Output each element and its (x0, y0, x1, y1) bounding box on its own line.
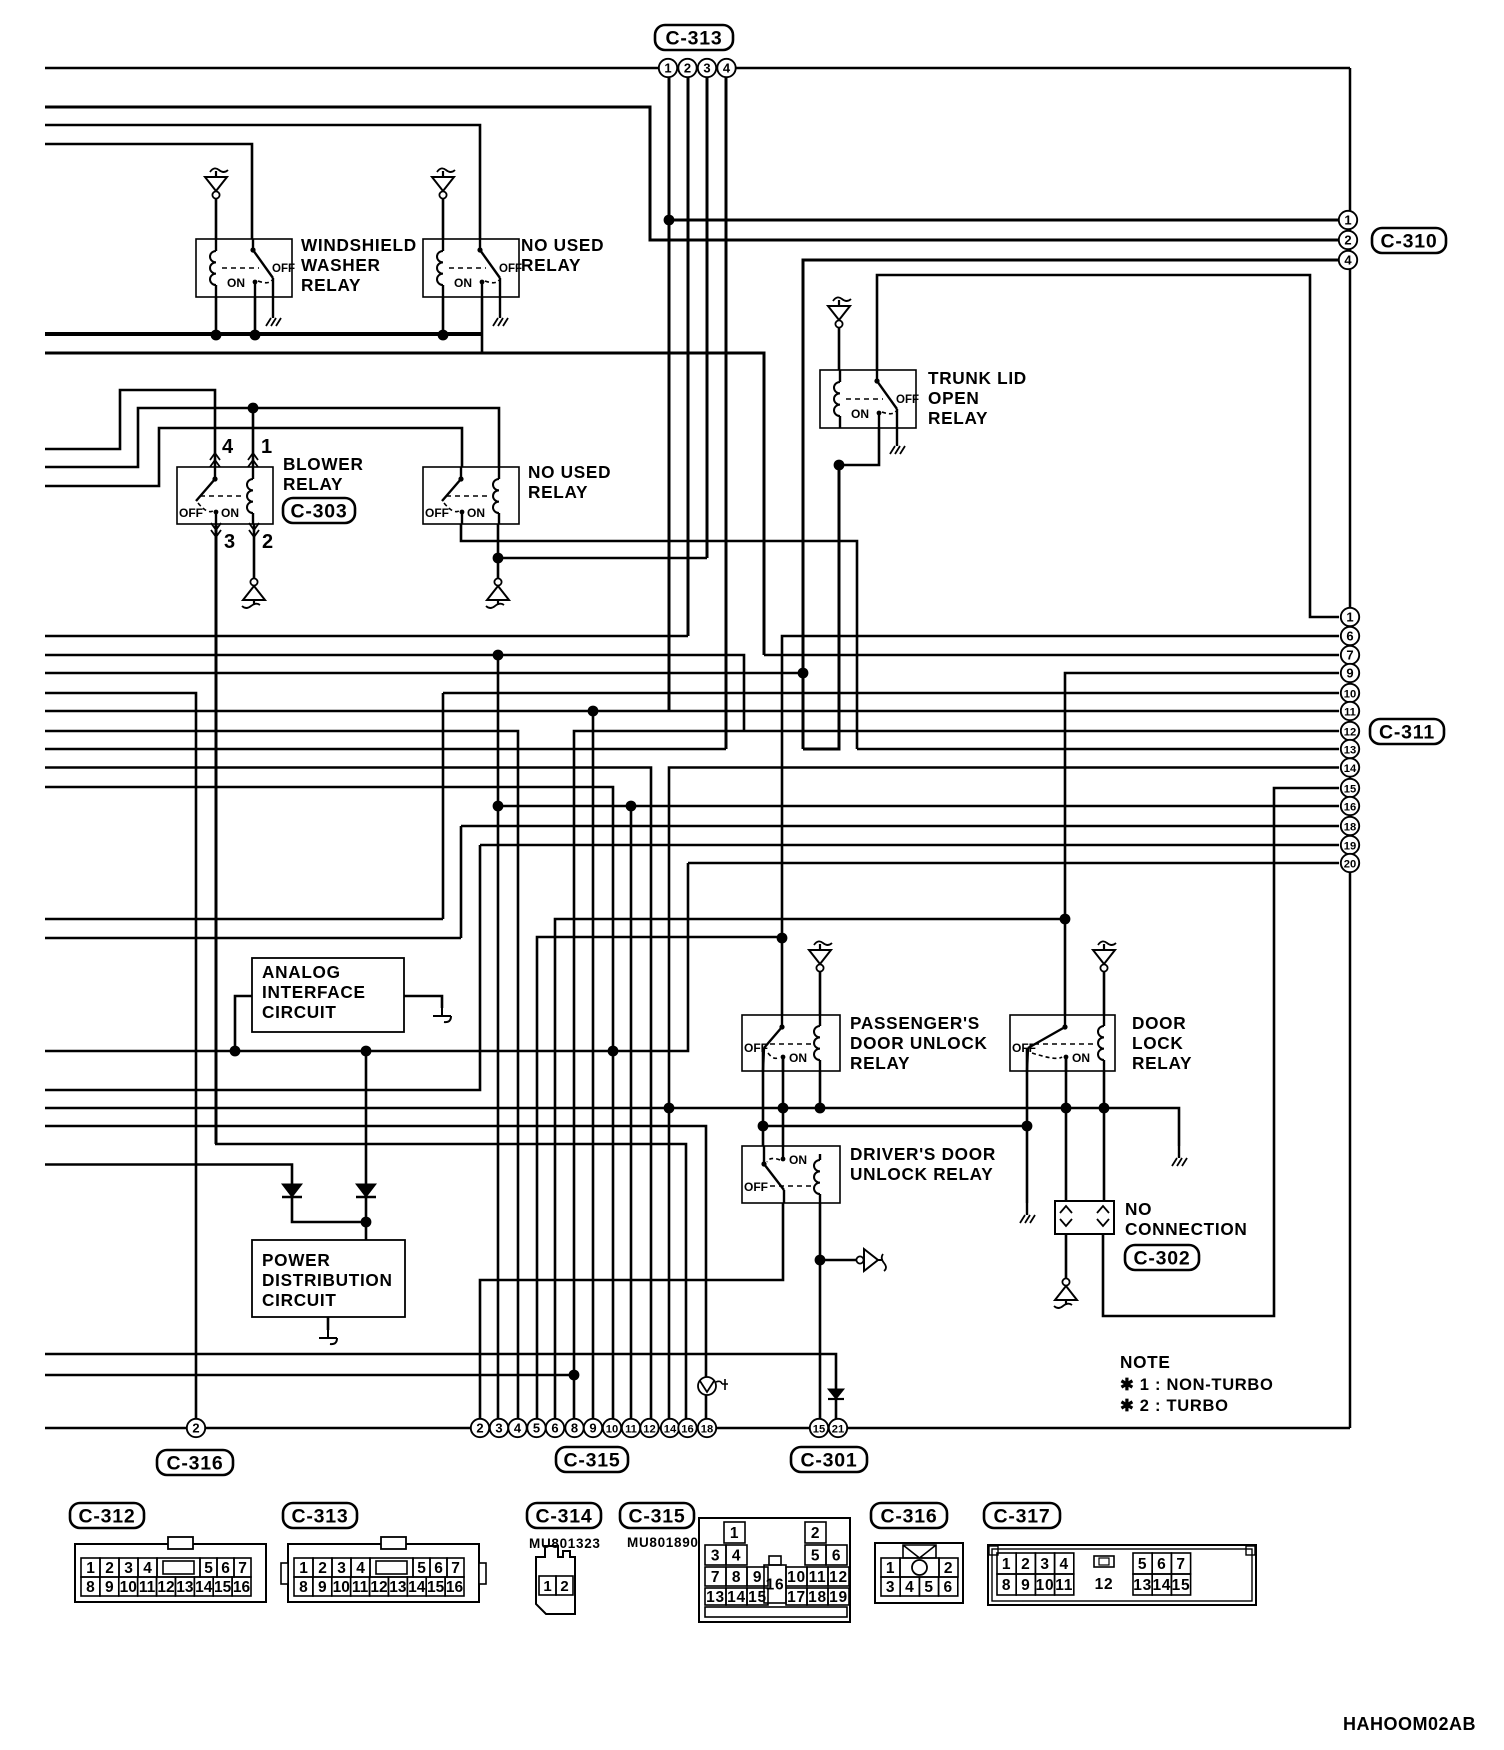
connector C-316 table label (871, 1503, 947, 1528)
svg-text:WASHER: WASHER (301, 255, 381, 275)
svg-text:DOOR: DOOR (1132, 1013, 1186, 1033)
svg-text:MU801890: MU801890 (627, 1535, 699, 1550)
wire pin18 riser (460, 826, 463, 938)
wire pin20 riser to 1051 row (45, 863, 688, 1051)
svg-text:10: 10 (606, 1423, 618, 1435)
node washer ON on bus E (250, 330, 261, 341)
svg-text:16: 16 (233, 1579, 251, 1596)
relay windshield washer (196, 239, 292, 297)
svg-text:10: 10 (787, 1569, 806, 1586)
svg-text:OFF: OFF (272, 263, 295, 275)
ground above trunk lid open relay (833, 297, 851, 301)
svg-text:11: 11 (352, 1579, 369, 1596)
svg-text:3: 3 (224, 531, 236, 553)
svg-text:2: 2 (1344, 232, 1351, 247)
svg-text:TRUNK LID: TRUNK LID (928, 368, 1027, 388)
wire passenger switch row from C-315 pin5 (537, 937, 782, 1428)
svg-text:21: 21 (832, 1423, 844, 1435)
node door lock OFF junction 1126 row (1022, 1121, 1033, 1132)
svg-text:C-315: C-315 (628, 1506, 685, 1528)
svg-text:13: 13 (706, 1589, 725, 1606)
svg-text:6: 6 (434, 1560, 443, 1577)
svg-text:OFF: OFF (896, 394, 919, 406)
wire C-311/C-313 connector column (1349, 68, 1352, 1428)
svg-text:12: 12 (157, 1579, 174, 1596)
svg-text:C-301: C-301 (800, 1450, 857, 1472)
pin C-315 3 (490, 1419, 508, 1437)
pin C-316 2 on bottom row (187, 1419, 205, 1437)
svg-text:C-316: C-316 (880, 1506, 937, 1528)
svg-text:14: 14 (1152, 1577, 1171, 1594)
box analog interface circuit (252, 958, 404, 1032)
wire ground to passenger coil (819, 971, 822, 1015)
ground horizontal right of driver coil (856, 1256, 863, 1263)
wire pin19 riser to 1090 row (45, 845, 480, 1090)
wire pin7-junction drop to C-315 pin3 (497, 655, 500, 1428)
svg-text:4: 4 (143, 1560, 152, 1577)
svg-text:OFF: OFF (425, 506, 449, 520)
svg-text:12: 12 (370, 1579, 387, 1596)
svg-text:10: 10 (333, 1579, 350, 1596)
svg-text:14: 14 (195, 1579, 213, 1596)
svg-text:18: 18 (701, 1423, 713, 1435)
svg-text:1: 1 (543, 1578, 551, 1595)
relay blower C-303 (177, 467, 273, 524)
wire diode1 to junction (292, 1197, 366, 1222)
pin C-310 1 (1339, 211, 1357, 229)
svg-text:6: 6 (551, 1420, 558, 1435)
node passenger ON junction 1108 row (778, 1103, 789, 1114)
svg-text:15: 15 (1344, 783, 1356, 795)
svg-text:OFF: OFF (499, 263, 522, 275)
wire passenger OFF drop to 1126 row (762, 1048, 765, 1126)
node driver coil junction to ground (815, 1255, 826, 1266)
node door lock coil junction 1108 row (1099, 1103, 1110, 1114)
svg-text:1: 1 (1344, 212, 1351, 227)
wire C-311 pin14 row to C-315 pin14 (669, 768, 1339, 1429)
ground above no used relay 1 (437, 168, 455, 172)
node pin16 junction to C-315 pin11 (626, 801, 637, 812)
pin C-311 6 (1341, 627, 1359, 645)
svg-text:5: 5 (533, 1420, 540, 1435)
svg-text:15: 15 (214, 1579, 232, 1596)
wire no-connection left pin to ground (1065, 1234, 1068, 1280)
svg-text:ANALOG: ANALOG (262, 962, 341, 982)
wire 938-left row to pin18 riser (45, 937, 461, 940)
wire door lock coil drop to no-connection (1103, 1071, 1106, 1201)
svg-text:RELAY: RELAY (521, 255, 581, 275)
label C-303 (283, 498, 355, 523)
svg-text:4: 4 (732, 1548, 741, 1565)
svg-text:14: 14 (664, 1423, 677, 1435)
wire no-used-1 ON contact down to bus F (481, 297, 484, 353)
svg-text:10: 10 (1344, 688, 1356, 700)
svg-text:13: 13 (176, 1579, 194, 1596)
svg-text:14: 14 (1344, 763, 1357, 775)
svg-text:10: 10 (120, 1579, 137, 1596)
pin C-311 20 (1341, 854, 1359, 872)
pin C-311 1 (1341, 608, 1359, 626)
relay passenger door unlock (742, 1015, 840, 1071)
wire pin16 junction drop to C-315 pin11 (630, 806, 633, 1428)
svg-text:11: 11 (1055, 1577, 1073, 1594)
svg-text:OFF: OFF (179, 506, 203, 520)
svg-text:2: 2 (1021, 1556, 1030, 1573)
svg-text:5: 5 (924, 1579, 933, 1596)
svg-text:2: 2 (105, 1560, 114, 1577)
svg-text:3: 3 (703, 60, 710, 75)
svg-text:C-313: C-313 (291, 1506, 348, 1528)
connector C-315 table label (620, 1503, 694, 1528)
svg-text:9: 9 (753, 1569, 762, 1586)
pin C-315 8 (565, 1419, 583, 1437)
svg-text:2: 2 (318, 1560, 327, 1577)
connector C-315 label bottom (556, 1447, 628, 1472)
wire pin7-left row (45, 655, 744, 731)
wire C-313 pin1 drop (668, 77, 671, 711)
pin C-311 15 (1341, 779, 1359, 797)
svg-text:14: 14 (408, 1579, 426, 1596)
pin C-310 2 (1339, 231, 1357, 249)
svg-text:8: 8 (299, 1579, 308, 1596)
svg-text:12: 12 (1095, 1576, 1114, 1593)
ground above windshield washer relay (210, 168, 228, 172)
wire 1108 row to chassis ground right (45, 1108, 1179, 1146)
svg-text:13: 13 (389, 1579, 407, 1596)
svg-text:4: 4 (1344, 252, 1352, 267)
wire C-311 pin18 row (461, 825, 1339, 828)
wire analog left pin to 1051 row (235, 996, 252, 1051)
svg-text:7: 7 (238, 1560, 247, 1577)
wire ground to washer coil (215, 198, 218, 239)
svg-text:9: 9 (105, 1579, 114, 1596)
svg-text:RELAY: RELAY (850, 1053, 910, 1073)
wire ground to door lock coil (1103, 971, 1106, 1015)
wire C-310 pin4 feed (803, 260, 1339, 749)
svg-text:10: 10 (1036, 1577, 1055, 1594)
svg-text:6: 6 (1157, 1556, 1166, 1573)
svg-text:RELAY: RELAY (1132, 1053, 1192, 1073)
ground above passenger relay (814, 941, 832, 945)
svg-text:POWER: POWER (262, 1250, 330, 1270)
node pin11 junction to C-315 pin9 (588, 706, 599, 717)
svg-text:1: 1 (86, 1560, 95, 1577)
svg-text:2: 2 (262, 531, 274, 553)
svg-text:OPEN: OPEN (928, 388, 980, 408)
ground chassis below door lock OFF (1026, 1203, 1028, 1215)
svg-text:MU801323: MU801323 (529, 1536, 601, 1551)
label C-302 (1125, 1245, 1199, 1270)
pin C-311 9 (1341, 664, 1359, 682)
svg-text:✱ 1 : NON-TURBO: ✱ 1 : NON-TURBO (1120, 1376, 1274, 1394)
wire washer OFF to chassis ground (272, 297, 274, 306)
svg-text:18: 18 (808, 1589, 827, 1606)
ground chassis below no used relay 1 (499, 306, 501, 318)
wire pin11 junction drop to C-315 pin9 (592, 711, 595, 1428)
connector C-301 label bottom (791, 1447, 867, 1472)
pin C-311 18 (1341, 817, 1359, 835)
svg-text:ON: ON (789, 1153, 807, 1167)
pin 4 chevrons blower (210, 453, 220, 467)
svg-text:ON: ON (454, 276, 472, 290)
wire C-313 pin3 drop (706, 77, 709, 558)
svg-text:8: 8 (571, 1420, 578, 1435)
wire C-313 pin4 row (45, 748, 726, 751)
node door lock switch feed junction (1060, 914, 1071, 925)
svg-text:NOTE: NOTE (1120, 1352, 1171, 1372)
diode D3 to C-301 pin21 (828, 1389, 844, 1399)
svg-text:C-313: C-313 (665, 28, 722, 50)
svg-text:7: 7 (1346, 647, 1353, 662)
relay door lock (1010, 1015, 1115, 1071)
svg-text:8: 8 (86, 1579, 95, 1596)
svg-text:NO USED: NO USED (528, 462, 611, 482)
svg-text:✱ 2 : TURBO: ✱ 2 : TURBO (1120, 1397, 1229, 1415)
svg-text:11: 11 (625, 1423, 637, 1435)
svg-text:15: 15 (748, 1589, 767, 1606)
svg-text:13: 13 (1133, 1577, 1152, 1594)
svg-text:3: 3 (124, 1560, 133, 1577)
wire blower pin1 drop (252, 408, 255, 467)
node no-used-2 coil junction (493, 553, 504, 564)
svg-text:ON: ON (851, 407, 869, 421)
svg-text:3: 3 (1040, 1556, 1049, 1573)
node passenger switch feed junction (777, 933, 788, 944)
svg-text:5: 5 (811, 1548, 820, 1565)
svg-text:C-303: C-303 (290, 501, 347, 523)
svg-text:C-314: C-314 (535, 1506, 592, 1528)
svg-text:6: 6 (944, 1579, 953, 1596)
svg-text:2: 2 (811, 1525, 820, 1542)
svg-text:C-312: C-312 (78, 1506, 135, 1528)
ground below no used relay 2 (494, 578, 501, 585)
svg-text:2: 2 (944, 1560, 953, 1577)
wire C-311 pin19 row (480, 844, 1339, 847)
wire power box ground (327, 1317, 330, 1330)
connector table C-312 (70, 1503, 144, 1528)
svg-text:16: 16 (446, 1579, 464, 1596)
ground above door lock relay (1098, 941, 1116, 945)
node pin14 wire junction on 1108 row (664, 1103, 675, 1114)
svg-text:ON: ON (1072, 1051, 1090, 1065)
relay no used relay 2 (423, 467, 519, 524)
wire pin10 riser (442, 693, 445, 919)
wire diode2 to power box (365, 1197, 368, 1240)
svg-text:RELAY: RELAY (301, 275, 361, 295)
svg-text:4: 4 (356, 1560, 365, 1577)
wire row2 to C-310 pin 2 (45, 107, 1339, 240)
svg-text:1: 1 (886, 1560, 895, 1577)
ground hook power (319, 1330, 337, 1344)
svg-text:C-302: C-302 (1133, 1248, 1190, 1270)
svg-text:4: 4 (222, 436, 234, 458)
svg-text:1: 1 (1346, 609, 1353, 624)
wire washer ON contact to bus E (254, 297, 257, 335)
relay trunk lid open (820, 370, 916, 428)
pin C-311 7 (1341, 646, 1359, 664)
svg-text:6: 6 (1346, 628, 1353, 643)
wire 1164 row to diode 1 (45, 1165, 292, 1185)
svg-text:4: 4 (723, 60, 731, 75)
svg-text:16: 16 (1344, 801, 1356, 813)
connector table C-316 (875, 1543, 963, 1603)
wire top bus to C-313 and C-310 pin1 corner (45, 67, 1350, 69)
svg-text:4: 4 (514, 1420, 522, 1435)
pin C-310 4 (1339, 251, 1357, 269)
pin C-315 16 (678, 1419, 696, 1437)
pin C-311 13 (1341, 740, 1359, 758)
svg-text:12: 12 (1344, 726, 1356, 738)
wire door lock OFF drop to chassis ground (1026, 1048, 1029, 1203)
pin C-311 16 (1341, 797, 1359, 815)
wire blower pin4 feed step (45, 390, 215, 467)
wire 919-left row (45, 918, 443, 921)
wire ground to trunk coil (838, 327, 841, 370)
relay driver door unlock (742, 1146, 840, 1203)
svg-text:9: 9 (1021, 1577, 1030, 1594)
svg-text:12: 12 (829, 1569, 848, 1586)
wire driver coil drop to C-301 pin15 (819, 1203, 822, 1428)
wire C-311 pin11 row (45, 710, 1339, 713)
node washer coil on bus E (211, 330, 222, 341)
svg-text:7: 7 (1176, 1556, 1185, 1573)
svg-text:OFF: OFF (744, 1180, 768, 1194)
node door lock ON junction 1108 row (1061, 1103, 1072, 1114)
wire trunk coil lower junction to C-310 pin4 wire (803, 465, 839, 749)
svg-text:15: 15 (813, 1423, 825, 1435)
connector table C-317 (988, 1545, 1256, 1605)
svg-text:7: 7 (711, 1569, 720, 1586)
wire passenger coil drop (819, 1071, 822, 1108)
svg-text:2: 2 (560, 1578, 568, 1595)
wire C-311 pin7 row (764, 654, 1339, 657)
node diode join (361, 1217, 372, 1228)
wire C-311 pin6 row to passenger relay switch (782, 636, 1339, 1015)
svg-text:9: 9 (318, 1579, 327, 1596)
wire C-313 pin2 drop (687, 77, 690, 636)
wire to horizontal ground (820, 1259, 856, 1261)
wire row4 to windshield washer relay switch (45, 144, 252, 239)
ground chassis below trunk relay (896, 434, 898, 446)
node blower pin1 junction (248, 403, 259, 414)
wire C-311 pin20 row (688, 862, 1339, 865)
wire blower pin2 to ground (253, 524, 256, 580)
wire coil junction to ground (497, 558, 500, 580)
svg-text:BLOWER: BLOWER (283, 454, 364, 474)
pin C-315 10 (603, 1419, 621, 1437)
ground below no connection (1062, 1278, 1069, 1285)
svg-text:8: 8 (732, 1569, 741, 1586)
svg-text:WINDSHIELD: WINDSHIELD (301, 235, 417, 255)
node pin7-line junction (493, 650, 504, 661)
pin C-315 4 (508, 1419, 526, 1437)
pin C-315 14 (661, 1419, 679, 1437)
pin C-313 4 (717, 59, 735, 77)
wire pin10-left row to C-316 pin2 drop (45, 693, 196, 1428)
svg-text:11: 11 (809, 1569, 827, 1586)
box power distribution circuit (252, 1240, 405, 1317)
svg-text:1: 1 (664, 60, 671, 75)
pin 1 chevrons blower (248, 453, 258, 467)
svg-text:12: 12 (643, 1423, 655, 1435)
ground hook analog (433, 1008, 451, 1022)
svg-text:11: 11 (1344, 706, 1356, 718)
svg-text:ON: ON (789, 1051, 807, 1065)
wire driver pivot feed (762, 1126, 765, 1146)
svg-text:1: 1 (1002, 1556, 1011, 1573)
pin C-315 9 (584, 1419, 602, 1437)
svg-text:C-317: C-317 (993, 1506, 1050, 1528)
svg-text:6: 6 (832, 1548, 841, 1565)
svg-text:RELAY: RELAY (528, 482, 588, 502)
pin 2 chevrons blower (249, 523, 259, 537)
svg-text:5: 5 (417, 1560, 426, 1577)
svg-text:14: 14 (727, 1589, 746, 1606)
wire bus E (45, 332, 481, 336)
svg-text:NO: NO (1125, 1199, 1152, 1219)
svg-text:2: 2 (684, 60, 691, 75)
wire trunk coil row to door-lock switch riser (555, 919, 1065, 1428)
svg-text:1: 1 (299, 1560, 308, 1577)
wire pin15-left row to C-315 pin10 (45, 787, 613, 1428)
svg-text:ON: ON (467, 506, 485, 520)
svg-text:INTERFACE: INTERFACE (262, 982, 366, 1002)
wire 1375 row (45, 1374, 574, 1377)
wire to C-310 pin 1 (669, 219, 1339, 222)
connector C-316 label bottom (157, 1450, 233, 1475)
svg-text:RELAY: RELAY (283, 474, 343, 494)
svg-text:C-310: C-310 (1380, 231, 1437, 253)
connector C-313 label (655, 25, 733, 50)
wire no-used-2 ON down and right to pin13 riser (461, 524, 857, 749)
connector C-310 label (1372, 228, 1446, 253)
wire C-311 pin12 row from C-315 pin8 riser (574, 731, 1339, 1428)
connector C-311 label (1370, 719, 1444, 744)
wire C-311 pin15 row to no-connection right pin (1103, 788, 1339, 1316)
pin C-311 19 (1341, 836, 1359, 854)
wire C-311 pin16 row (498, 805, 1339, 808)
wire C-313 pin4 drop to row 749 (725, 77, 728, 749)
wire bottom row 1428 (45, 1427, 1350, 1430)
wire bus F to C-311 pin7 feed (45, 353, 764, 655)
svg-text:5: 5 (204, 1560, 213, 1577)
pin C-315 5 (527, 1419, 545, 1437)
no connection pin chevrons left (1060, 1206, 1072, 1226)
connector table C-313 bottom (283, 1503, 357, 1528)
wire 1126-left row to C-315 pin18 (45, 1126, 706, 1428)
wire 1126-right row (763, 1125, 1027, 1128)
connector table C-314 (536, 1546, 575, 1614)
node pin16 junction on C-315 pin3 drop (493, 801, 504, 812)
svg-text:1: 1 (261, 436, 273, 458)
wire C-311 pin13 row (857, 748, 1339, 751)
pin C-311 10 (1341, 684, 1359, 702)
svg-text:9: 9 (589, 1420, 596, 1435)
wire C-311 pin9 row to door lock switch (1065, 673, 1339, 1015)
svg-text:RELAY: RELAY (928, 408, 988, 428)
svg-text:7: 7 (451, 1560, 460, 1577)
svg-text:HAHOOM02AB: HAHOOM02AB (1343, 1714, 1476, 1734)
wire C-313 pin2 row (45, 635, 688, 638)
svg-text:DISTRIBUTION: DISTRIBUTION (262, 1270, 393, 1290)
ground chassis at 1108 row end (1178, 1146, 1180, 1158)
svg-text:15: 15 (427, 1579, 445, 1596)
connector table C-315 staircase (699, 1518, 850, 1622)
pin C-313 3 (698, 59, 716, 77)
svg-text:3: 3 (337, 1560, 346, 1577)
wire blower pin3 to C-315 pin16 feed (215, 524, 218, 1144)
relay no used relay 1 (423, 239, 519, 297)
